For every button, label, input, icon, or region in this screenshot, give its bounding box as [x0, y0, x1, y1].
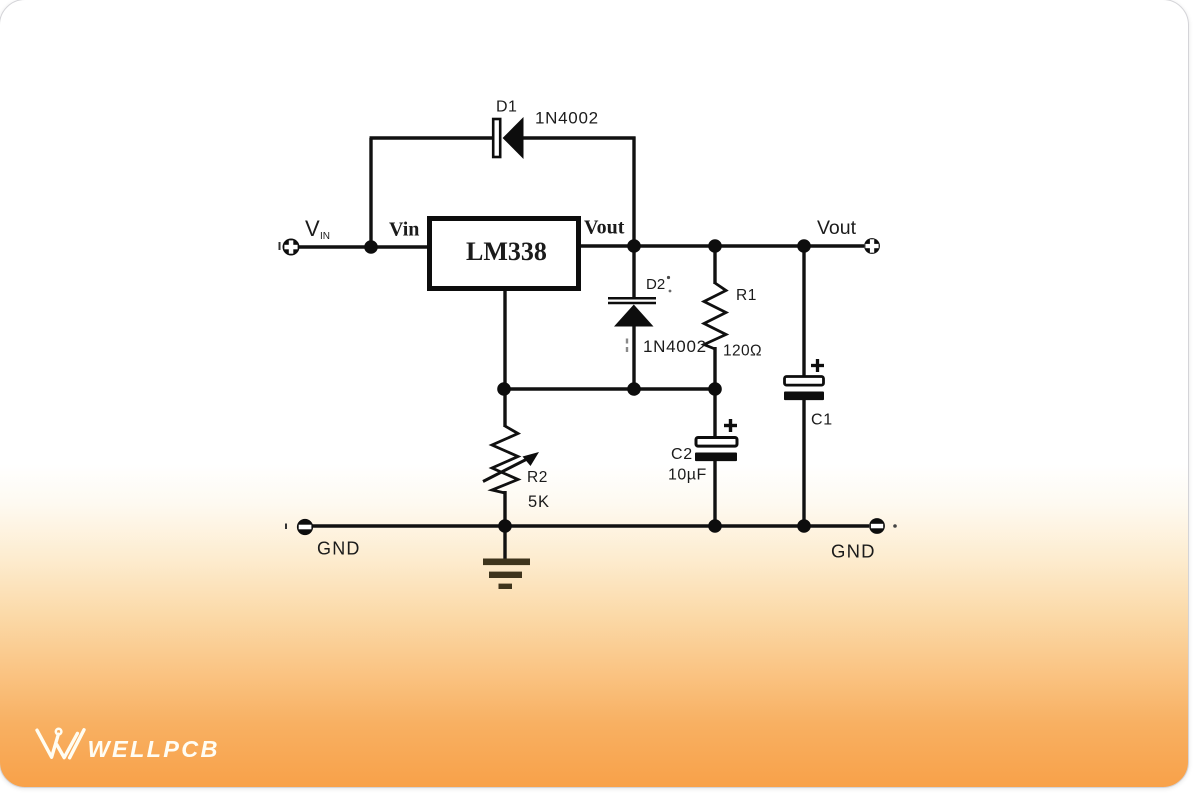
diode D1	[493, 117, 523, 159]
wire ground rail	[311, 524, 869, 527]
svg-text:Vout: Vout	[584, 217, 625, 239]
junction ground node at C1	[797, 519, 811, 533]
svg-text:Vin: Vin	[389, 219, 419, 241]
capacitor C2	[695, 419, 737, 461]
wire C2 bottom lead	[713, 459, 716, 526]
wire ground stub	[503, 526, 506, 559]
wire ADJ rail	[504, 387, 715, 390]
svg-text:C1: C1	[811, 412, 833, 429]
terminal GND left minus	[286, 519, 313, 535]
wire D2 anode branch	[632, 326, 635, 389]
junction output node at C1	[797, 239, 811, 253]
svg-text:D2: D2	[646, 276, 665, 293]
terminal GND right minus	[869, 518, 897, 534]
svg-text:GND: GND	[317, 539, 361, 559]
svg-text:1N4002: 1N4002	[643, 337, 707, 356]
wire riser input node to top rail	[369, 138, 372, 249]
wire output LM338 Vout to terminal	[579, 244, 864, 247]
wire C1 top lead	[802, 246, 805, 377]
svg-text:1N4002: 1N4002	[535, 109, 599, 128]
junction input node	[364, 240, 378, 254]
svg-text:Vout: Vout	[817, 217, 857, 239]
terminal VIN plus	[280, 239, 300, 256]
wire top rail down to output node	[632, 137, 635, 247]
svg-text:WELLPCB: WELLPCB	[88, 736, 220, 762]
wire C1 bottom lead	[802, 398, 805, 526]
svg-text:120Ω: 120Ω	[723, 343, 762, 360]
diode D2	[608, 298, 656, 326]
wire LM338 ADJ pin	[503, 291, 506, 389]
IC U1 LM338 regulator box	[430, 219, 579, 289]
resistor R2 (variable)	[483, 426, 539, 493]
junction ADJ node at R2	[497, 382, 511, 396]
wire R1 top branch	[713, 246, 716, 284]
wire D2 cathode branch	[632, 246, 635, 297]
svg-text:R2: R2	[527, 469, 548, 486]
wire R2 bottom lead	[503, 491, 506, 526]
wire R1 bottom branch	[713, 347, 716, 389]
junction ground node at C2	[708, 519, 722, 533]
wire top rail left segment	[370, 136, 495, 139]
capacitor C1	[784, 359, 824, 400]
junction ADJ node at D2	[627, 382, 641, 396]
junction output node at R1	[708, 239, 722, 253]
ground symbol	[483, 559, 530, 590]
logo WellPCB mark	[37, 729, 84, 758]
svg-text:LM338: LM338	[466, 237, 547, 266]
svg-text:5K: 5K	[528, 493, 550, 511]
terminal Vout plus	[864, 238, 880, 254]
wire C2 top lead	[713, 389, 716, 438]
wire input VIN to LM338 Vin	[299, 245, 429, 248]
wire R2 top lead	[503, 389, 506, 427]
svg-text:C2: C2	[671, 446, 693, 463]
resistor R1	[704, 283, 726, 349]
junction ADJ node at C2	[708, 382, 722, 396]
svg-text:IN: IN	[320, 231, 330, 242]
svg-text:R1: R1	[736, 287, 757, 304]
svg-text:GND: GND	[831, 541, 876, 562]
svg-text:V: V	[305, 216, 320, 241]
svg-text:10µF: 10µF	[668, 467, 707, 484]
stray mark near D2	[667, 276, 670, 279]
junction output node at D1	[627, 239, 641, 253]
wire top rail right segment	[523, 136, 636, 139]
junction ground node at R2	[498, 519, 512, 533]
node label VIN	[305, 216, 330, 242]
svg-text:D1: D1	[496, 99, 517, 116]
